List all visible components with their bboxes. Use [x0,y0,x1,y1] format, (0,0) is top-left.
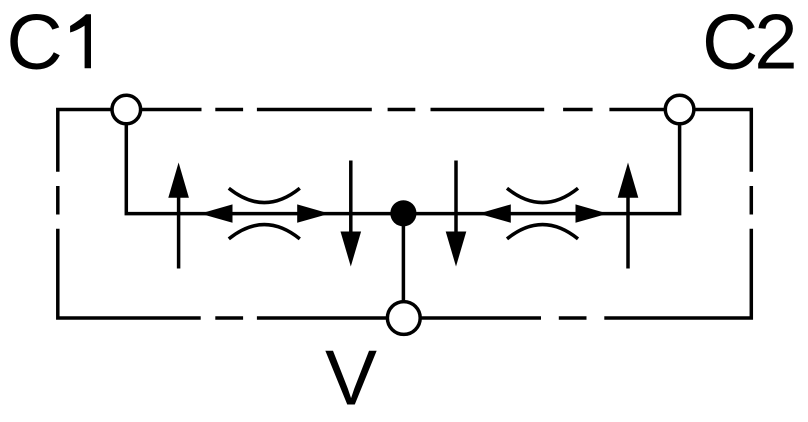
svg-text:2: 2 [754,0,797,85]
svg-text:C: C [702,0,758,85]
svg-text:C: C [6,0,62,85]
svg-text:V: V [325,333,377,421]
